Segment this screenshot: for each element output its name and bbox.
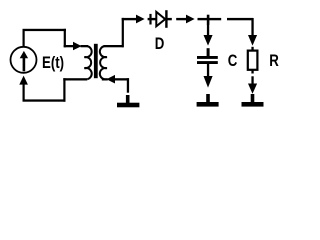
source E(t) circle U1 <box>11 47 37 73</box>
wire: resistor bottom stub <box>251 70 253 74</box>
arrow on bus (right) before diode <box>136 15 145 24</box>
capacitor ground bar <box>197 102 219 107</box>
wire: capacitor branch upper <box>207 24 209 36</box>
wire: diode cathode lead <box>168 18 172 20</box>
wire: resistor branch upper <box>251 18 253 36</box>
svg-text:C: C <box>228 52 238 71</box>
diode anode terminal tick <box>149 14 151 25</box>
arrow down below resistor <box>248 84 257 94</box>
wire: resistor top stub <box>251 47 253 51</box>
wire: left loop bottom horizontal <box>23 99 66 101</box>
wire: secondary bottom to ground corner <box>115 78 130 80</box>
resistor ground stub <box>251 94 255 103</box>
transformer ground stub <box>126 95 130 103</box>
wire: below source down <box>23 84 25 102</box>
arrow into secondary bottom (left) <box>106 75 115 84</box>
arrow down below capacitor <box>204 76 213 88</box>
wire: circle top up <box>23 29 25 48</box>
wire: primary bottom lead <box>63 78 87 80</box>
wire: bus segment to resistor corner <box>227 18 253 20</box>
arrow below source (up) <box>19 76 28 85</box>
arrow into primary (right) <box>73 42 82 51</box>
wire: top bus to diode arrow <box>122 18 137 20</box>
wire: capacitor bottom stub <box>207 64 209 77</box>
resistor ground bar <box>242 102 264 107</box>
transformer ground bar <box>117 103 139 108</box>
wire: left loop top horizontal <box>23 29 67 31</box>
capacitor C bottom plate <box>197 61 218 64</box>
capacitor C top plate <box>197 56 218 59</box>
diode D triangle <box>156 12 165 26</box>
wire: bus segment to junction <box>198 18 222 20</box>
resistor R box <box>248 51 258 70</box>
arrow down into resistor <box>248 35 257 46</box>
wire: below resistor <box>251 76 253 85</box>
transformer secondary winding L2 <box>100 46 107 79</box>
wire: secondary top lead <box>104 45 124 47</box>
wire: secondary corner up <box>122 18 124 47</box>
wire: after arrow to coil <box>81 45 89 47</box>
wire: bus segment before second arrow <box>176 18 186 20</box>
wire: down to transformer ground <box>127 78 129 93</box>
wire: capacitor top stub <box>207 48 210 56</box>
svg-text:D: D <box>155 35 165 54</box>
wire: secondary bottom lead <box>102 78 108 80</box>
arrow on bus (right) after diode <box>186 15 195 24</box>
source internal arrow <box>20 51 28 71</box>
wire: diode anode lead <box>148 18 156 20</box>
node tick above capacitor branch <box>207 15 210 25</box>
svg-text:R: R <box>269 52 279 71</box>
transformer primary winding L1 <box>84 46 91 79</box>
arrow down into capacitor <box>204 35 213 46</box>
svg-text:E(t): E(t) <box>42 54 64 73</box>
wire: corner up to primary bottom <box>63 78 65 102</box>
diode cathode bar <box>165 10 167 28</box>
transformer core <box>94 44 98 78</box>
capacitor ground stub <box>206 94 210 103</box>
wire: primary top lead <box>64 45 74 47</box>
wire: corner down to primary lead <box>64 29 66 48</box>
